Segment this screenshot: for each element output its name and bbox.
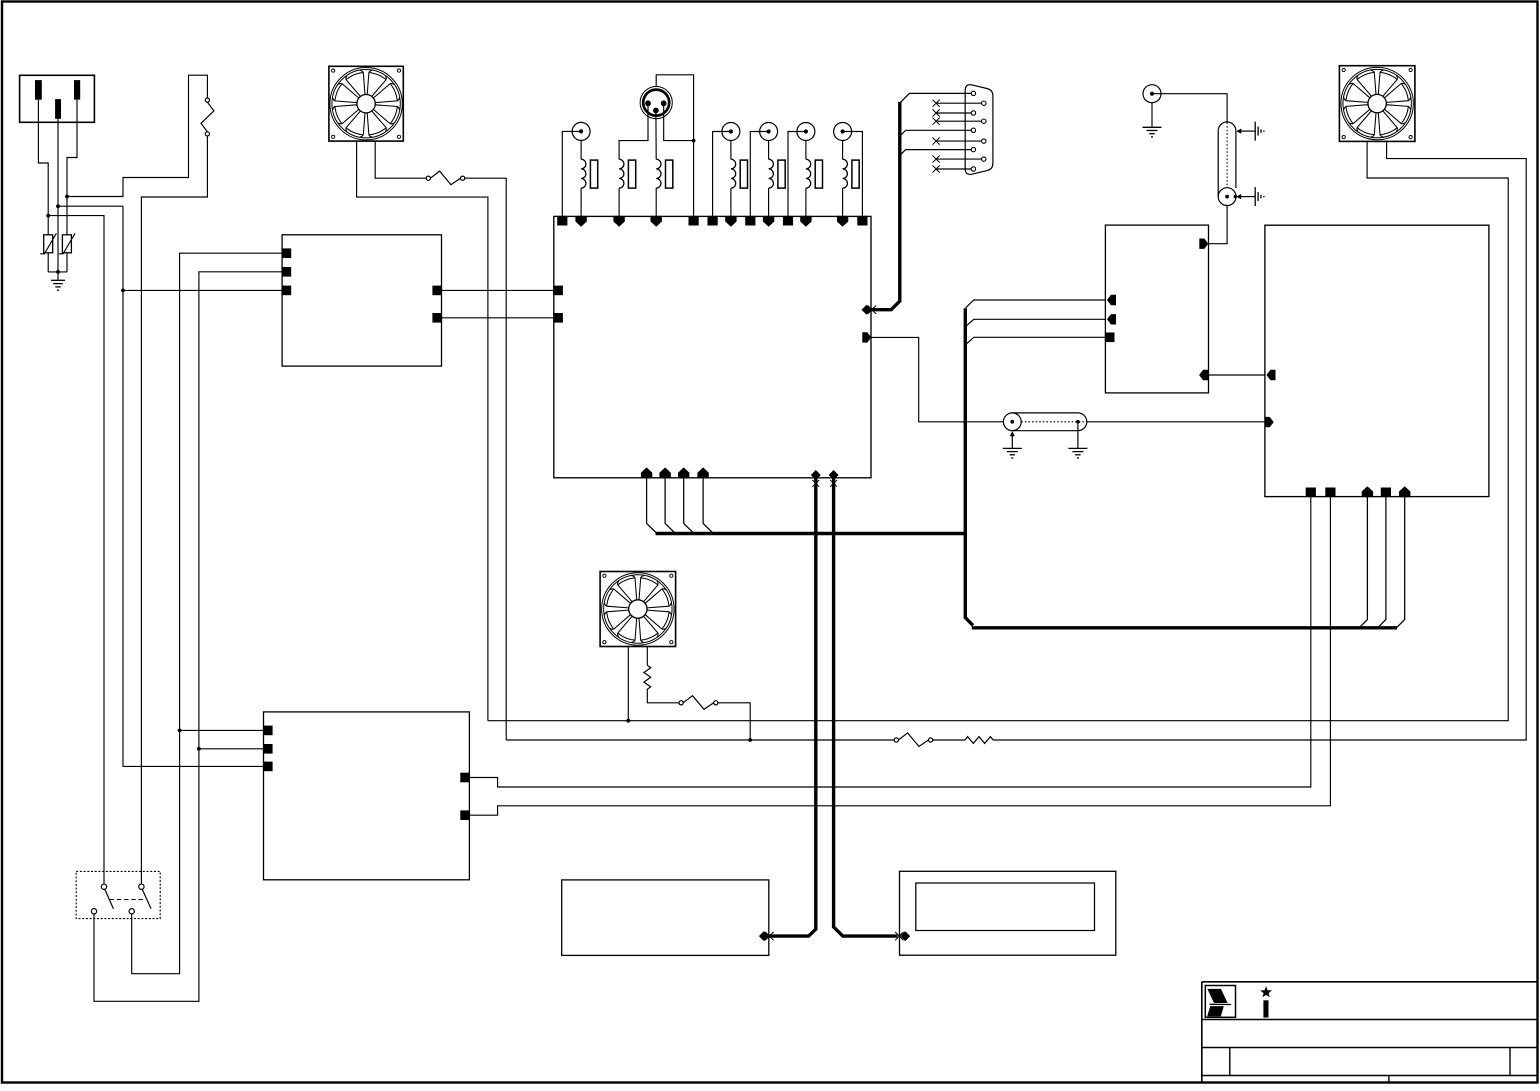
wire line node to power switch [48,216,104,885]
wire fan M1 left lead [357,141,488,721]
pad U2 left 1 [553,286,563,296]
wire J3 shell loop over [656,75,693,217]
chassis ground W1 shield bottom [1234,187,1264,206]
pad U2 top square 1 [557,216,567,226]
pad U2 bottom arrow 1 [641,467,652,478]
pad U5 bottom square 3 [1381,488,1391,498]
wire tap to box2 pad2 [199,748,264,750]
box U5 power amplifier [1265,225,1489,496]
D-sub pin left y149.6 [971,147,975,151]
wire J4 shell to filter [730,141,732,160]
wire fan M2 right lead [646,647,648,666]
circuit breaker CB1 [201,98,214,136]
title block grid [1202,982,1538,1083]
pad U4 left 3 [263,762,273,772]
wire bus tap to U3 pad3 [966,337,1106,344]
D-sub pin left y169 [971,167,975,171]
box U3 control board [1105,225,1208,393]
thermal switch TS1 [426,171,465,185]
logo i-bar [1263,1000,1268,1017]
AC inlet connector J1 [20,75,95,122]
wire FL3 to pad [655,188,657,216]
wire neutral node to box1 and box2 [58,206,264,766]
D-sub pin right y121.2 [982,119,986,123]
wire FL5 to pad [768,188,770,216]
pad U4 left 2 [263,744,273,754]
wire J3 pin1 to filter FL2 [619,105,648,159]
ground earth symbol below varistors [51,272,65,290]
wire bus tap to U3 pad2 [966,319,1106,326]
wire U2 right pad to cable W2 [871,337,1003,421]
wire earth node to breaker [67,75,207,196]
wire J3 pin2 to filter FL3 [655,112,657,159]
bus U2 to box5 connector [834,479,911,942]
D-sub pin left y113 [971,111,975,115]
pad U3 left square 3 [1105,333,1115,343]
fan supply bus B right [993,141,1526,740]
resistor R1 [644,665,651,691]
pad U2 top arrow 1 [575,216,586,227]
wire FL1 to pad [580,188,582,216]
pad U2 bottom diamond 2 [829,470,839,487]
wire fan M1 right lead [375,141,426,178]
node on earth wire [65,195,69,199]
no-connect stub pin y159.1 [933,156,982,163]
pad U2 top square 2 [689,216,699,226]
wire U5 bottom pad to bus tap2 [1378,497,1386,628]
fan M3 [1339,66,1415,142]
no-connect stub pin y113 [933,109,972,116]
wire tap to box2 pad1 [180,729,264,731]
wire U2 bottom pad x646.6 to bus [647,478,657,534]
pad U2 bottom arrow 4 [697,467,708,478]
D-sub pin left y93.4 [971,91,975,95]
box U1 standby supply [282,235,441,366]
box U7 display module [900,871,1116,955]
wire J2 pin to pad [562,131,581,216]
wire switch bottom-right loop [132,253,282,974]
no-connect stub pin y121.2 [933,118,982,125]
thermal switch TS2 [679,696,718,710]
wire FL2 to pad [618,188,620,216]
wire J9 to shielded cable W1 [1152,94,1227,122]
pad U3 right arrow bottom [1199,370,1208,380]
pad U2 top arrow 7 [837,216,848,227]
pad U2 top square 6 [857,216,867,226]
pad U1 left 2 [282,267,292,277]
D-sub pin right y103.2 [982,101,986,105]
pad U2 left 2 [553,313,563,323]
pad U4 right 2 [460,810,470,820]
shielded cable W2 [1003,413,1086,431]
wire U4 out1 to box6 [469,497,1310,787]
varistor RV1 [40,233,56,254]
pad U1 right 2 [432,313,442,323]
inductor FL4 [731,159,748,188]
node tap to box2 pad1 [178,729,182,733]
box U6 transformer [562,880,769,956]
wire varistor RV1 lead [47,253,49,272]
node J3 shell junction [692,139,696,143]
wire bus tap to U3 pad1 [966,300,1106,308]
ground W2 shield left [1003,431,1022,458]
pad U5 bottom arrow 1 [1362,486,1373,497]
no-connect stub pin y103.2 [933,100,982,107]
pad U2 top arrow 6 [800,216,811,227]
pad U4 left 1 [263,726,273,736]
bus main board secondary [656,532,966,535]
pad U2 right diamond (bus entry) [862,305,877,315]
wire TS1 to fan bus B [465,178,507,740]
box U2 main amplifier board [554,216,871,477]
node on line wire [46,214,50,218]
bus control harness vertical [965,308,1397,628]
node tap to box2 pad2 [197,747,201,751]
wire D-sub pin4 tap to bus [900,150,971,156]
D-sub pin left y130.3 [971,128,975,132]
logo star [1260,986,1272,997]
fan supply bus A [488,141,1508,720]
D-sub pin right y159.1 [982,157,986,161]
wire J5 shell to filter [768,141,770,160]
wire U5 bottom pad to bus tap3 [1397,497,1405,628]
RCA jack J4 [722,123,740,141]
pad U2 top square 3 [708,216,718,226]
wire J6 shell to filter [805,141,807,160]
bus D-sub harness [871,102,900,310]
wire FL4 to pad [730,188,732,216]
pad U5 left arrow 1 [1267,370,1276,380]
pad U2 top arrow 5 [763,216,774,227]
pad U3 left arrow 1 [1107,295,1116,305]
logo middle line [1210,1003,1232,1005]
wire AC line prong to varistor RV1 [38,100,48,235]
varistor RV2 [59,233,75,254]
thermal switch TS3 [894,733,933,747]
node neutral tap to box1 [121,289,125,293]
wire TS2 to fan bus B [718,703,750,740]
pad U4 right 1 [460,773,470,783]
logo chevron upper [1207,989,1227,1003]
wire AC earth prong to varistor RV2 [67,100,77,235]
inductor FL6 [806,159,823,188]
pad U5 bottom square 1 [1306,488,1316,498]
wire D-sub pin1 to bus [900,93,971,103]
wire U1 to main board pad L2 [442,317,554,319]
wire U1 to main board pad L1 [442,289,554,291]
pad U2 bottom arrow 3 [678,467,689,478]
wire R1 to thermal switch TS2 [647,692,679,703]
D-sub connector J8 shell [965,85,993,175]
wire U3 to U5 link [1209,374,1265,376]
pad U2 bottom arrow 2 [659,467,670,478]
pad U3 right arrow top [1199,239,1208,249]
pad U2 top arrow 4 [725,216,736,227]
pad U5 bottom square 2 [1325,488,1335,498]
wire switch bottom-left loop [94,272,282,1002]
inductor FL1 [581,159,598,188]
logo box [1205,986,1235,1018]
pad U1 left 1 [282,248,292,258]
wire FL7 to pad [842,188,844,216]
box U4 power supply [264,712,470,880]
inductor FL3 [656,159,673,188]
power switch S1 (DPST) [76,871,160,918]
inductor FL7 [843,159,860,188]
resistor R2 [965,737,993,744]
wire J2 shell to filter [580,140,582,159]
wire J4 pin to pad [713,132,731,217]
wire U2 bottom pad x703.1 to bus [703,478,713,534]
wire U5 bottom pad to bus tap1 [1359,497,1367,628]
ground earth below J9 [1143,103,1162,137]
pad U2 right arrow out [862,332,871,342]
wire D-sub pin5 tap to bus [900,130,971,136]
wire J6 pin to pad [788,132,806,217]
pad U1 left 3 [282,286,292,296]
wire J3 pin3 to shell node [664,105,694,141]
wire W1 to U3 pad [1209,206,1228,244]
pad U2 bottom diamond 1 [811,470,821,487]
fan M2 [600,572,676,647]
bus U2 to box4 connector [759,479,816,942]
wire breaker to power switch [141,136,207,884]
RCA jack J2 [572,122,590,140]
node on neutral wire [56,204,60,208]
D-sub pin right y141.1 [982,139,986,143]
shielded cable W1 [1218,122,1236,206]
logo chevron lower [1207,1006,1224,1016]
wire U2 bottom pad x665.1 to bus [665,478,675,534]
RCA jack J6 [797,123,815,141]
fan supply bus B left [506,739,894,741]
wire J7 shell to filter [842,141,844,160]
pad U3 left arrow 2 [1107,314,1116,324]
no-connect stub pin y141.1 [933,138,982,145]
RCA jack J7 [834,123,852,141]
ground W2 shield right [1068,424,1087,458]
pad U2 top square 4 [745,216,755,226]
pad U2 top square 5 [783,216,793,226]
wire TS3 to resistor R2 [933,739,965,741]
RCA jack J5 [760,123,778,141]
node fan bus A junction [626,719,630,723]
wire J5 pin to pad [750,132,768,217]
XLR connector J3 [640,87,672,119]
wire varistor RV2 lead [66,253,68,272]
wire neutral tap to box1 pad3 [123,289,282,291]
wire FL6 to pad [805,188,807,216]
wire J7 pin to pad [843,132,863,217]
wire AC neutral prong [57,119,59,272]
no-connect stub pin y169 [933,165,972,172]
fan M1 [329,66,403,141]
wire U4 out2 to box6 [469,497,1330,816]
wire W2 to U5 input pad [1087,421,1265,423]
pad U2 top arrow 3 [651,216,662,227]
wire U2 bottom pad x683.7 to bus [684,478,694,534]
pad U5 left arrow 2 [1265,417,1274,427]
pad U2 top arrow 2 [613,216,624,227]
inductor FL2 [619,159,636,188]
pad U5 bottom arrow 2 [1399,486,1410,497]
node varistor junction [56,270,60,274]
chassis ground W1 shield top [1236,122,1264,141]
wire fan M2 left lead [627,647,629,721]
node fan bus B junction [748,738,752,742]
wire varistor common [48,271,67,273]
pad U1 right 1 [432,286,442,296]
inductor FL5 [769,159,786,188]
RCA jack J9 [1143,85,1161,103]
